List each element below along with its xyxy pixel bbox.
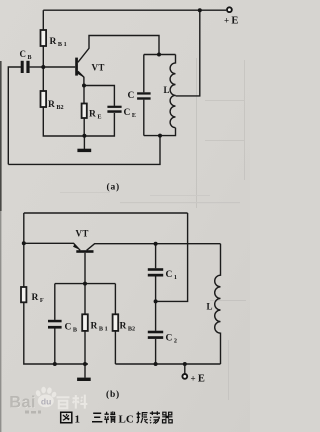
caption char 端 (104, 411, 115, 423)
wire: (b) CB top lead (54, 284, 56, 320)
wire: (b) ground stem (84, 364, 86, 378)
wire: (a) base wire (43, 66, 75, 68)
wire: (a) C tank top lead (143, 55, 145, 93)
wire: (b) collector wire to tank (87, 244, 221, 251)
svg-text:du: du (41, 397, 51, 407)
node: (a) tank bottom junction (158, 134, 162, 138)
resistor RB1 (b) (82, 314, 88, 331)
wire: (b) C2 top lead (155, 301, 157, 330)
transistor VT (a) base bar (75, 58, 78, 76)
node: (a) tank top junction (157, 53, 161, 57)
node: (b) +E junction (183, 362, 187, 366)
wire: (a) RE top lead (83, 86, 85, 104)
wire: (b) RF bottom lead and bottom-left ground rail (24, 302, 88, 364)
caption 图1 三端LC振荡器 (61, 411, 173, 423)
inductor L (a) coil (170, 55, 175, 128)
capacitor CE (a) plates (107, 106, 121, 113)
svg-text:LC: LC (119, 414, 134, 426)
wire: (b) CB bottom lead (54, 329, 56, 365)
node: (a) ground junction (82, 134, 86, 138)
ground symbol (a) (77, 149, 91, 152)
transistor VT (a) emitter arrow (77, 71, 84, 77)
terminal +E (b) (182, 374, 187, 379)
caption char 三 (92, 413, 102, 422)
svg-text:(b): (b) (106, 389, 120, 400)
svg-text:VT: VT (76, 229, 89, 239)
svg-text:+ E: + E (191, 374, 205, 385)
svg-text:VT: VT (92, 63, 105, 73)
resistor RB2 (a) (41, 91, 47, 107)
wire: (a) C tank bottom lead (143, 100, 145, 136)
inductor L (b) coil (215, 244, 221, 364)
wire: (b) bottom supply rail (115, 363, 220, 365)
wire: (b) C1 bottom lead (155, 277, 157, 302)
caption char 图 (61, 412, 72, 423)
caption char 荡 (150, 411, 160, 423)
caption char 器 (162, 412, 172, 423)
svg-text:C: C (128, 91, 135, 101)
node: (a) emitter junction (82, 84, 86, 88)
node: (b) CB ground junction (53, 362, 57, 366)
wire: (b) RB1 leads (84, 284, 86, 364)
svg-text:L: L (164, 85, 170, 95)
node: (b) RB1 ground junction (83, 362, 87, 366)
resistor RB1 (a) (41, 30, 47, 46)
transistor VT (b) base bar (76, 250, 93, 253)
node: (b) tank rail junction at C1 (154, 242, 158, 246)
wire: (b) base lead down (84, 253, 86, 284)
svg-text:L: L (207, 302, 213, 312)
capacitor C1 (b) plates (148, 268, 163, 276)
ground symbol (b) (77, 378, 91, 381)
wire: (a) emitter node to CE top (84, 86, 114, 106)
resistor RF (b) (21, 287, 26, 302)
wire: (a) CB left lead and left vertical (8, 67, 21, 164)
watermark char 百 (57, 397, 70, 408)
capacitor CB (b) plates (48, 320, 62, 329)
wire: (a) ground stem (83, 136, 85, 149)
wire: (b) left vertical to RF (23, 213, 25, 287)
terminal +E (a) (227, 7, 232, 12)
svg-text:1: 1 (75, 414, 81, 426)
node: (a) base junction (41, 65, 45, 69)
wire: (b) C1 top lead (155, 244, 157, 269)
watermark Baidu Baike (9, 387, 87, 414)
capacitor C tank (a) plates (137, 92, 151, 99)
wire: (a) RB2 top lead (42, 67, 44, 91)
wire: (a) RB2 bottom lead to ground node (43, 107, 84, 136)
wire: (b) emitter wire (24, 243, 80, 250)
node: (b) C1C2 junction (154, 299, 158, 303)
node: (b) base divider junction (83, 282, 87, 286)
wire: (b) +E drop (184, 364, 186, 374)
svg-text:+ E: + E (224, 16, 238, 27)
resistor RE (a) (82, 104, 87, 119)
watermark char 科 (73, 395, 88, 409)
node: (a) supply rail junction (198, 8, 202, 12)
wire: (a) ground node to CE bottom (84, 113, 114, 136)
scan artifact left edge line (0, 61, 2, 432)
node: (b) emitter-left junction (22, 241, 26, 245)
wire: (a) RB1 bottom lead to base node (42, 46, 44, 67)
scan ghost artifacts right side (60, 58, 246, 400)
wire: (a) emitter lead (78, 71, 84, 85)
wire: (b) top rail (24, 212, 188, 214)
svg-text:(a): (a) (107, 182, 120, 193)
wire: (a) tank top rail (144, 54, 176, 56)
capacitor CB (a) plates (21, 61, 30, 73)
wire: (a) CB right lead (30, 66, 44, 68)
wire: (a) tank bottom wire (144, 128, 176, 136)
resistor RB2 (b) (113, 314, 119, 331)
wire: (b) C1C2 junction link to top rail (156, 213, 188, 301)
node: (b) C2 supply junction (154, 362, 158, 366)
wire: (a) inductor tap to +E rail (176, 10, 200, 96)
wire: (a) top supply rail (43, 9, 226, 11)
wire: (a) RE bottom lead (83, 118, 85, 136)
wire: (b) C2 bottom lead (155, 339, 157, 364)
capacitor C2 (b) plates (148, 331, 163, 339)
wire: (a) collector lead up and over to tank (78, 36, 159, 63)
caption char 振 (137, 412, 148, 424)
wire: (a) RB1 top lead (42, 10, 44, 30)
wire: (b) bias divider rail (55, 283, 116, 285)
wire: (b) RB2 leads (114, 284, 116, 364)
svg-text:Bai: Bai (9, 393, 36, 411)
transistor VT (b) emitter arrow (73, 244, 80, 249)
wire: (a) bottom return wire (8, 136, 160, 165)
